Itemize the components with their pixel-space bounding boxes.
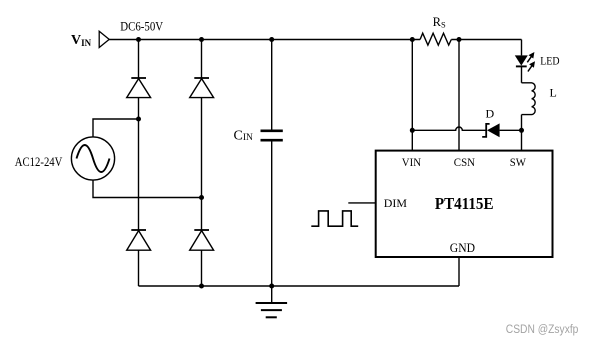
- wire inductor to SW junction and SW pin: [521, 115, 523, 151]
- LED D-LED symbol: [515, 52, 535, 72]
- svg-text:DC6-50V: DC6-50V: [120, 20, 163, 34]
- svg-text:L: L: [550, 86, 557, 100]
- diode D4 lower-right: [190, 230, 214, 250]
- wire bottom rail: [139, 285, 460, 287]
- diode D triangle: [487, 123, 500, 137]
- svg-text:AC12-24V: AC12-24V: [15, 155, 63, 169]
- resistor R1 Rs zigzag: [420, 33, 451, 45]
- wire DIM pin: [348, 202, 375, 204]
- ground symbol: [256, 286, 288, 317]
- diode D1 upper-left: [127, 78, 151, 98]
- wire CIN column bottom: [271, 141, 273, 286]
- svg-text:VIN: VIN: [71, 33, 92, 48]
- wire bridge column A top: [138, 40, 140, 79]
- svg-text:CSN: CSN: [454, 155, 476, 169]
- wire right drop to LED: [521, 40, 523, 56]
- wire bridge column B bottom: [201, 250, 203, 286]
- node PWM waveform: [311, 211, 358, 226]
- svg-text:GND: GND: [450, 241, 475, 255]
- diode D3 lower-left: [127, 230, 151, 250]
- svg-text:DIM: DIM: [384, 196, 408, 210]
- AC source sine wave: [77, 145, 110, 172]
- diode D (Schottky) cathode bar with hooks: [482, 124, 489, 137]
- wire bridge column B top: [201, 40, 203, 79]
- capacitor C1 CIN plates: [261, 130, 283, 133]
- wire bridge column A middle: [138, 98, 140, 230]
- svg-text:SW: SW: [510, 155, 527, 169]
- svg-text:VIN: VIN: [402, 155, 422, 169]
- wire AC top terminal: [93, 119, 139, 137]
- svg-text:PT4115E: PT4115E: [435, 194, 494, 213]
- wire top rail right (resistor to LED corner): [451, 39, 521, 41]
- wire bridge column A bottom: [138, 250, 140, 286]
- op-amp U1 PT4115E IC box: [376, 151, 553, 257]
- inductor L coil: [522, 83, 536, 115]
- diode D2 upper-right: [190, 78, 214, 98]
- wire AC bottom terminal: [93, 180, 202, 197]
- wire CIN column top: [271, 40, 273, 130]
- node junction dots: [136, 37, 524, 289]
- wire LED to inductor: [521, 66, 523, 82]
- svg-text:RS: RS: [433, 15, 446, 30]
- wire diode D horizontal with hop over CSN line: [412, 127, 521, 130]
- svg-text:LED: LED: [540, 53, 560, 67]
- wire VIN column: [411, 40, 413, 151]
- svg-text:D: D: [486, 107, 495, 121]
- AC source V1 circle: [71, 137, 114, 180]
- node VIN input port triangle: [99, 31, 109, 47]
- wire bridge column B middle: [201, 98, 203, 230]
- wire top rail left (VIN to resistor): [109, 39, 420, 41]
- wire CSN column: [458, 40, 460, 151]
- svg-text:CIN: CIN: [234, 129, 254, 144]
- wire GND pin drop: [458, 257, 460, 286]
- svg-text:CSDN @Zsyxfp: CSDN @Zsyxfp: [506, 324, 579, 336]
